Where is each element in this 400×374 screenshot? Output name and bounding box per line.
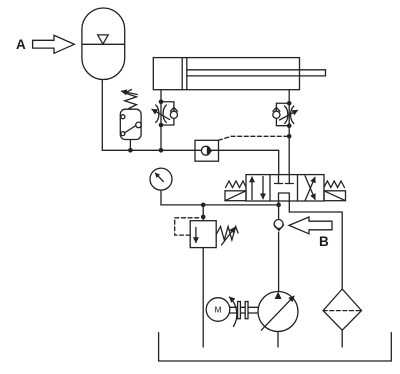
svg-text:M: M <box>214 305 221 315</box>
node pressure switch / main line <box>128 148 133 153</box>
spring right <box>324 181 345 188</box>
motor rotation arrow <box>230 297 237 327</box>
node relief valve branch <box>201 203 206 208</box>
wire right cylinder port down to valve port B <box>288 90 290 175</box>
solenoid left <box>225 191 246 201</box>
wire accumulator stem to main line <box>102 80 195 151</box>
filter <box>323 289 361 330</box>
pressure switch spring (adjustable) <box>125 90 137 109</box>
node relief pilot junction <box>201 215 206 220</box>
svg-text:A: A <box>16 37 26 52</box>
wire T port to filter <box>289 201 342 289</box>
cylinder <box>153 58 299 90</box>
shaft coupling <box>230 306 258 308</box>
pilot line (dashed) to B-side line <box>219 136 290 140</box>
wire gauge to P line <box>161 190 279 205</box>
pilot operated check valve <box>195 140 219 161</box>
wire left cylinder port down to main line <box>160 90 162 150</box>
node pilot line junction <box>287 134 292 139</box>
spring left <box>226 181 247 188</box>
wire pressure switch drop <box>129 140 131 151</box>
node left FCV bottom <box>159 123 164 128</box>
node right FCV top <box>287 101 292 106</box>
wire pump suction into tank <box>277 332 279 348</box>
wire P port down to pump <box>278 201 280 220</box>
pressure switch <box>120 109 141 139</box>
pressure gauge <box>150 168 172 190</box>
check valve bypass left FCV <box>161 102 174 125</box>
electric motor <box>206 298 230 322</box>
pump (variable displacement) <box>258 292 298 332</box>
wire check valve to pump <box>278 232 280 291</box>
node right FCV bottom <box>287 123 292 128</box>
check valve B <box>274 220 283 229</box>
flow control valve left (restrictor) <box>156 105 159 123</box>
pressure relief valve <box>190 221 216 248</box>
node left FCV top <box>159 99 164 104</box>
directional valve left position arrows <box>251 177 253 200</box>
pilot operated check valve wire (main line through box to valve port A) <box>195 150 279 174</box>
arrow A (callout pointing right at accumulator) <box>33 35 75 53</box>
arrow B (callout pointing left at check valve) <box>289 217 332 234</box>
wire relief valve branch <box>202 205 204 221</box>
tank <box>159 333 392 361</box>
flow control valve right (restrictor) <box>285 106 288 124</box>
svg-text:B: B <box>319 234 329 249</box>
directional valve body <box>246 175 324 201</box>
node left FCV / main line <box>159 148 164 153</box>
wire filter outlet into tank <box>341 330 343 347</box>
accumulator <box>82 8 125 80</box>
directional valve right position crossed arrows <box>305 177 315 201</box>
check valve bypass right FCV <box>276 103 289 125</box>
directional valve centre position (blocked) <box>278 175 280 184</box>
wire relief valve drain to tank <box>202 248 204 347</box>
solenoid right <box>324 191 346 201</box>
node P line junction <box>276 203 281 208</box>
